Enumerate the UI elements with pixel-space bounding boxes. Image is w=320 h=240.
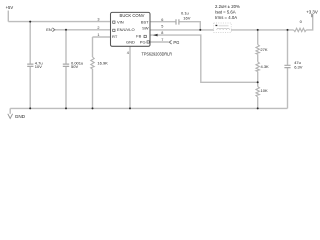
svg-text:50V: 50V xyxy=(71,64,78,69)
wire FB pin 8 to divider tap xyxy=(150,35,258,82)
svg-text:SW: SW xyxy=(142,26,149,31)
wire bootstrap cap to SW node xyxy=(179,22,200,30)
svg-text:VIN: VIN xyxy=(117,20,124,25)
svg-text:EN: EN xyxy=(46,27,52,32)
svg-text:4: 4 xyxy=(127,51,129,55)
svg-text:TPS629203DRLR: TPS629203DRLR xyxy=(142,51,173,56)
svg-text:PG: PG xyxy=(173,40,179,45)
op-amp/IC U1 TPS629203 box xyxy=(111,12,151,46)
svg-text:BUCK CONV: BUCK CONV xyxy=(120,13,145,18)
svg-text:10K: 10K xyxy=(261,88,268,93)
FB input arrow xyxy=(153,34,158,37)
EN input flag chevron xyxy=(52,28,54,32)
svg-text:+5V: +5V xyxy=(6,5,14,10)
svg-text:4.3K: 4.3K xyxy=(261,64,270,69)
resistor 10K zigzag xyxy=(256,87,259,98)
svg-text:6.3V: 6.3V xyxy=(294,65,303,70)
ground flag arrow xyxy=(8,114,13,119)
svg-text:10V: 10V xyxy=(35,64,42,69)
svg-text:GND: GND xyxy=(126,40,135,45)
svg-text:1: 1 xyxy=(97,33,99,37)
svg-text:PG: PG xyxy=(140,39,146,44)
capacitor Cout 47u leads xyxy=(287,30,289,109)
svg-text:8: 8 xyxy=(161,31,163,35)
svg-text:+3.3V: +3.3V xyxy=(306,9,318,14)
svg-text:16.9K: 16.9K xyxy=(97,61,108,66)
svg-text:GND: GND xyxy=(15,114,26,119)
svg-text:2.2uH ± 20%: 2.2uH ± 20% xyxy=(215,4,240,9)
IC GND pin 4 wire xyxy=(129,46,131,108)
wire BST pin 6 to bootstrap cap xyxy=(150,21,176,23)
pin pads (squares) xyxy=(113,21,150,43)
pad EN/UVLO xyxy=(113,29,115,31)
capacitor Cout plates xyxy=(284,65,290,67)
svg-text:2: 2 xyxy=(97,26,99,30)
pad VIN xyxy=(113,21,115,23)
PG output flag chevron xyxy=(169,40,171,44)
resistor R_RT 16.9K zigzag xyxy=(91,28,306,97)
wire SW pin 5 to inductor xyxy=(150,29,214,31)
capacitor C2 plates xyxy=(63,64,69,66)
svg-text:7: 7 xyxy=(161,38,163,42)
power flag +5V xyxy=(7,11,9,22)
resistor 4.3K zigzag xyxy=(256,62,259,72)
IC internal labels xyxy=(112,13,149,45)
pad FB xyxy=(144,35,146,37)
ground rail xyxy=(10,107,287,109)
resistor 27K zigzag xyxy=(256,45,259,55)
svg-text:3: 3 xyxy=(97,18,99,22)
svg-text:27K: 27K xyxy=(260,47,267,52)
wire RT to pin 1 xyxy=(93,37,111,57)
svg-text:6: 6 xyxy=(161,18,163,22)
divider chain wires xyxy=(257,30,259,109)
resistor R0 zigzag xyxy=(294,28,307,31)
wire EN to pin 2 xyxy=(55,29,111,31)
capacitor C1 4.7u lead xyxy=(29,22,31,109)
svg-text:Irms = 4.0A: Irms = 4.0A xyxy=(215,15,237,20)
svg-text:5: 5 xyxy=(161,25,163,29)
pad PG (bottom row) xyxy=(147,41,149,43)
wire PG pin 7 stub xyxy=(150,41,169,43)
ground flag stem xyxy=(9,108,11,113)
svg-text:RT: RT xyxy=(112,34,118,39)
inductor L1 dashed body xyxy=(214,23,232,33)
resistor 16.9K leads xyxy=(92,69,94,108)
svg-text:16V: 16V xyxy=(183,16,190,21)
capacitor C2 0.001u lead xyxy=(65,30,67,109)
wire R0 to +3.3V corner xyxy=(306,14,313,30)
wire +5V rail to VIN pin 3 xyxy=(8,21,110,23)
capacitor C3 0.1u plates xyxy=(176,19,179,24)
svg-text:Isat = 5.6A: Isat = 5.6A xyxy=(215,10,236,15)
wire inductor to output xyxy=(231,29,294,31)
svg-text:FB: FB xyxy=(136,33,141,38)
svg-text:EN/UVLO: EN/UVLO xyxy=(117,27,135,32)
svg-text:BST: BST xyxy=(141,19,149,24)
pin numbers xyxy=(97,18,163,55)
capacitor C1 plates xyxy=(27,19,290,67)
power flag +3.3V stem xyxy=(311,14,313,17)
